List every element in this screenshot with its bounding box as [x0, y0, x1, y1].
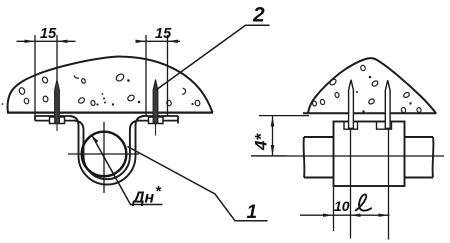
dim 15 left: extension line at strap end [34, 35, 36, 116]
strap top flange (left view) [35, 116, 178, 124]
vertical dim: bottom arrow [271, 145, 275, 156]
bottom dim: extension at block left edge [333, 187, 335, 231]
pipe left segment (right view) [304, 137, 334, 178]
pipe circle (left view) [82, 132, 127, 177]
flange right end cap [177, 116, 179, 124]
leader for Dn* [92, 136, 163, 205]
leader for item 2 [156, 25, 270, 90]
pipe centerline vertical (left view) [103, 122, 105, 193]
svg-text:4*: 4* [252, 133, 271, 151]
dim 15 left: dimension line [17, 40, 76, 42]
U-strap inner line [74, 121, 139, 180]
concrete dome outline (left view) [8, 57, 213, 113]
right view left nail shaft [349, 80, 354, 129]
right view right nail shaft [385, 80, 390, 128]
pipe right segment (right view) [405, 137, 434, 178]
dim 15 left: left arrow [25, 40, 36, 43]
hidden line through block below left nail [350, 129, 352, 238]
flange bottom edge [35, 120, 74, 122]
svg-text:2: 2 [252, 4, 265, 27]
strap block (right view side of clamp) [334, 122, 405, 187]
hidden line through block below right nail [388, 129, 390, 239]
left nail center mark below washer [56, 124, 58, 132]
left anchor nail washer [50, 117, 65, 124]
dim 15 right: right arrow [168, 40, 179, 43]
svg-text:Дн: Дн [131, 190, 155, 207]
leader for item 1 [128, 147, 268, 221]
svg-text:15: 15 [155, 26, 172, 42]
svg-text:1: 1 [247, 202, 258, 223]
right anchor nail washer [149, 117, 164, 124]
svg-text:15: 15 [40, 26, 57, 42]
dim 15 right: extension line left [145, 35, 147, 116]
dim 15 left: extension line at nail [56, 35, 58, 80]
bottom dim: arrow at 333.5 [323, 214, 334, 217]
concrete texture dots (right dome) [312, 65, 422, 113]
right anchor nail shaft [153, 80, 158, 124]
pipe left break edge [303, 137, 306, 178]
left washer notch [344, 122, 358, 130]
left anchor nail shaft [55, 80, 60, 124]
pipe centerline horizontal (left view) [68, 153, 139, 155]
pipe right break edge [432, 137, 435, 178]
dim 15 right: dimension line [137, 40, 180, 42]
vertical dim: dimension line [272, 116, 274, 156]
bottom dim text script-el [356, 194, 371, 210]
bottom dim: arrow at 389 [379, 214, 390, 217]
concrete texture dots (left dome) [18, 73, 200, 107]
vertical dim: top extension line [259, 115, 309, 117]
right washer notch [377, 122, 392, 130]
dim 15 left: right arrow [57, 40, 68, 43]
concrete dome outline (right view) [308, 58, 436, 113]
vertical dim: bottom extension line [251, 155, 287, 157]
pipe centerline (right view) [251, 155, 444, 157]
dome baseline (right view) [303, 112, 437, 114]
Dn* leader arrowhead [92, 136, 99, 143]
dome baseline (left view) [7, 111, 213, 113]
vertical dim: top arrow [271, 116, 275, 127]
bottom dim: dimension line [300, 214, 390, 216]
svg-text:10: 10 [334, 198, 350, 214]
bottom dim: arrow at 350 [350, 214, 361, 217]
flange left end cap [34, 116, 36, 121]
U-strap outer line [70, 116, 145, 185]
flange top edge [35, 115, 70, 117]
dim 15 right: extension line right [167, 35, 169, 117]
dim 15 right: left arrow [136, 40, 147, 43]
right nail center mark below washer [155, 124, 157, 136]
